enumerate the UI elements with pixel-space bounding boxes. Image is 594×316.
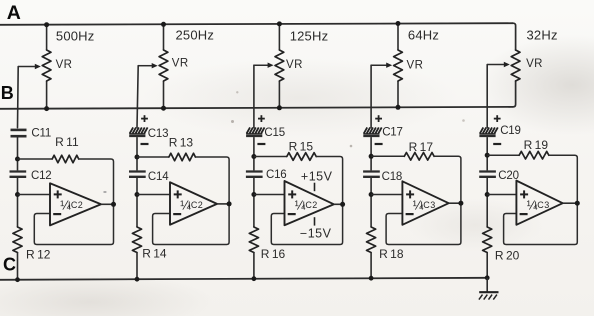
svg-text:C20: C20 <box>498 170 519 182</box>
svg-text:R 16: R 16 <box>261 247 286 261</box>
svg-text:C11: C11 <box>31 128 51 140</box>
svg-text:IC2: IC2 <box>188 200 203 210</box>
svg-text:C16: C16 <box>266 169 287 181</box>
svg-text:IC2: IC2 <box>303 200 318 210</box>
svg-text:C13: C13 <box>148 128 169 140</box>
svg-text:+15V: +15V <box>301 169 333 183</box>
svg-text:C: C <box>3 255 16 275</box>
svg-text:R 13: R 13 <box>169 136 194 150</box>
svg-text:VR: VR <box>56 59 73 71</box>
svg-text:64Hz: 64Hz <box>408 27 439 42</box>
svg-text:C12: C12 <box>31 170 52 182</box>
svg-text:VR: VR <box>407 60 424 72</box>
svg-text:R 18: R 18 <box>379 247 404 261</box>
svg-text:R 11: R 11 <box>55 135 79 149</box>
svg-text:IC3: IC3 <box>420 200 435 210</box>
svg-text:R 20: R 20 <box>495 248 520 262</box>
svg-text:C19: C19 <box>500 125 521 137</box>
svg-text:C18: C18 <box>382 171 403 183</box>
svg-text:VR: VR <box>172 58 189 70</box>
svg-text:R 17: R 17 <box>409 140 434 154</box>
svg-text:R 14: R 14 <box>142 247 167 261</box>
svg-text:125Hz: 125Hz <box>290 29 329 44</box>
svg-text:IC2: IC2 <box>68 200 83 210</box>
svg-text:32Hz: 32Hz <box>527 27 558 42</box>
svg-text:A: A <box>7 2 21 24</box>
svg-text:VR: VR <box>286 59 303 71</box>
svg-text:C14: C14 <box>148 171 169 183</box>
svg-text:C15: C15 <box>264 127 285 139</box>
svg-text:IC3: IC3 <box>534 200 549 210</box>
svg-text:R 19: R 19 <box>524 138 549 152</box>
svg-text:B: B <box>1 83 14 103</box>
svg-text:VR: VR <box>526 58 543 70</box>
svg-text:R 12: R 12 <box>26 248 51 262</box>
svg-text:250Hz: 250Hz <box>176 27 215 42</box>
svg-text:R 15: R 15 <box>289 140 314 154</box>
svg-text:−15V: −15V <box>300 227 332 241</box>
svg-text:500Hz: 500Hz <box>56 28 95 43</box>
svg-text:C17: C17 <box>382 126 403 138</box>
